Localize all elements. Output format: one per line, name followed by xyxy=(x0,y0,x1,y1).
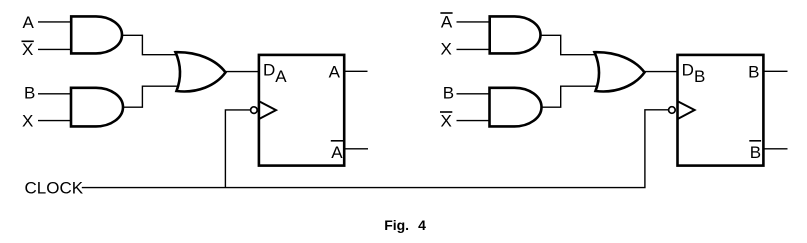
wire CLOCK net xyxy=(82,110,669,188)
D flip-flop FF_A box xyxy=(259,55,344,166)
svg-text:X: X xyxy=(22,40,33,59)
wire G4 output to G6 xyxy=(539,35,599,54)
wire G2 output to G3 xyxy=(122,86,180,107)
svg-text:A: A xyxy=(275,67,287,86)
clock bubble FF_A xyxy=(251,107,258,114)
wire G1 output to G3 xyxy=(121,35,180,54)
AND gate G5 xyxy=(490,88,542,127)
svg-text:D: D xyxy=(263,60,275,79)
wire input X2 xyxy=(457,48,491,50)
svg-text:X: X xyxy=(441,112,452,131)
svg-text:B: B xyxy=(24,84,35,103)
wire output Abar xyxy=(344,148,368,150)
D flip-flop FF_B box xyxy=(678,55,764,166)
wire clock branch to FF_A xyxy=(225,110,250,188)
svg-text:Fig.: Fig. xyxy=(384,217,409,233)
svg-text:X: X xyxy=(22,112,33,131)
wire input Abar xyxy=(457,21,491,23)
wire input Xbar xyxy=(38,48,72,50)
wire input A xyxy=(38,21,72,23)
svg-text:B: B xyxy=(694,67,705,86)
wire input Xbar2 xyxy=(457,120,491,122)
svg-text:CLOCK: CLOCK xyxy=(25,179,84,198)
AND gate G4 xyxy=(490,16,541,53)
wire G6 output to D_B xyxy=(643,71,677,73)
clock triangle FF_B xyxy=(678,102,695,119)
svg-text:A: A xyxy=(329,63,341,82)
svg-text:A: A xyxy=(331,143,343,162)
OR gate G6 xyxy=(595,52,645,91)
overline for input Abar xyxy=(440,12,452,14)
wire output Bbar xyxy=(763,148,787,150)
svg-text:B: B xyxy=(443,84,454,103)
clock bubble FF_B xyxy=(669,107,676,114)
clock triangle FF_A xyxy=(260,102,277,119)
OR gate G3 xyxy=(176,52,226,91)
wire input B2 xyxy=(457,93,491,95)
AND gate G1 xyxy=(71,16,122,53)
wire output B xyxy=(763,70,787,72)
wire G5 output to G6 xyxy=(540,86,599,107)
overline for input Xbar2 xyxy=(440,111,452,113)
svg-text:A: A xyxy=(441,13,453,32)
wire output A xyxy=(344,70,367,72)
svg-text:4: 4 xyxy=(418,217,426,233)
wire input X xyxy=(38,120,72,122)
overline for Abar output xyxy=(331,140,343,142)
wire G3 output to D_A xyxy=(224,71,258,73)
svg-text:D: D xyxy=(682,60,694,79)
overline for Bbar output xyxy=(749,140,761,142)
svg-text:B: B xyxy=(748,63,759,82)
wire input B xyxy=(38,93,72,95)
svg-text:B: B xyxy=(750,143,761,162)
AND gate G2 xyxy=(71,88,123,127)
svg-text:A: A xyxy=(23,13,35,32)
svg-text:X: X xyxy=(441,40,452,59)
overline for input Xbar xyxy=(22,40,34,42)
